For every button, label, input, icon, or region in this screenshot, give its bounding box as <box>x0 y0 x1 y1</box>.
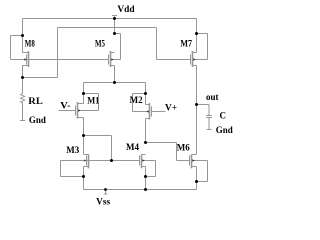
wire tail rail <box>84 82 146 84</box>
junction M8 source node <box>21 76 24 79</box>
svg-text:M6: M6 <box>177 142 190 152</box>
wire mirror feed from M1 drain <box>84 136 112 161</box>
wire out branch to capacitor <box>197 105 210 116</box>
junction M6 source bulk node <box>195 180 198 183</box>
junction M3 source node <box>82 175 85 178</box>
transistor M5 <box>109 51 115 67</box>
wire V- input lead <box>59 110 76 112</box>
junction M2 drain node <box>144 141 147 144</box>
wire M2 source drop <box>145 83 147 105</box>
wire M5 bulk loop <box>111 34 121 60</box>
svg-text:V+: V+ <box>165 102 177 112</box>
junction M1 bulk tap <box>82 92 85 95</box>
svg-text:M7: M7 <box>180 39 192 49</box>
transistor M8 <box>23 51 29 67</box>
svg-text:M8: M8 <box>25 38 35 48</box>
wire M7 drain down to out node and M6 <box>196 66 198 155</box>
wire M1 source drop <box>83 83 85 104</box>
ground left <box>20 120 25 122</box>
wire M3 gate loop <box>61 161 84 177</box>
wire M6 bulk loop <box>192 161 208 182</box>
svg-text:out: out <box>206 92 219 102</box>
wire M1 bulk loop <box>78 94 99 111</box>
wire M7 bulk loop <box>193 34 208 60</box>
transistor M2 <box>146 103 152 120</box>
transistor M1 <box>76 102 84 119</box>
svg-text:Gnd: Gnd <box>216 125 233 135</box>
transistor M4 <box>140 154 146 168</box>
wire gate line from M8 to M5 <box>11 59 109 61</box>
wire M8 drain drop from rail <box>22 19 24 53</box>
wire M7 source drop <box>196 19 198 53</box>
junction M7 bulk tap <box>195 32 198 35</box>
svg-text:Gnd: Gnd <box>29 115 46 125</box>
transistor M3 <box>84 154 89 168</box>
svg-text:Vss: Vss <box>96 197 111 207</box>
capacitor C <box>206 116 212 130</box>
wire M5 drain to tail node <box>114 66 116 83</box>
wire M2 bulk loop <box>133 94 150 112</box>
wire M8 source down to RL <box>22 66 24 94</box>
junction M1 drain node <box>82 134 85 137</box>
svg-text:RL: RL <box>28 96 43 106</box>
svg-text:M5: M5 <box>95 38 105 48</box>
junction out node <box>195 103 198 106</box>
wire bias rail left drop to M8 source node <box>23 28 58 78</box>
wire bottom gate mirror line <box>61 160 140 162</box>
transistor M6 <box>190 154 197 168</box>
svg-text:V-: V- <box>60 101 70 111</box>
wire M4 source drop <box>145 167 147 190</box>
svg-text:M2: M2 <box>130 95 143 105</box>
junction M4 source bulk node <box>144 175 147 178</box>
junction tail node <box>113 81 116 84</box>
wire M6 source drop <box>196 167 198 190</box>
svg-text:M1: M1 <box>87 96 100 106</box>
wire Vss rail <box>84 189 197 191</box>
ground right <box>207 129 212 131</box>
wire V+ input lead <box>152 111 166 113</box>
svg-text:M3: M3 <box>66 145 79 155</box>
transistor M7 <box>191 51 197 67</box>
wire RL bottom to ground <box>22 103 24 121</box>
junction M4 on Vss rail <box>144 188 147 191</box>
junction M8 gate loop tap <box>21 34 24 37</box>
wire M4 bulk loop <box>142 161 156 177</box>
wire M1 drain down to M3 <box>83 118 85 155</box>
wire Vdd rail <box>23 18 197 20</box>
junction on Vdd rail <box>113 17 116 20</box>
junction Vss tick <box>104 188 107 191</box>
wire M6 gate feed <box>146 143 190 161</box>
svg-text:C: C <box>220 110 227 120</box>
junction M2 bulk tap <box>144 92 147 95</box>
wire bias rail <box>58 27 157 29</box>
junction M5 bulk tap <box>113 32 116 35</box>
wire M8 gate loop <box>11 36 23 60</box>
node Vss terminal tick <box>104 190 107 195</box>
svg-text:Vdd: Vdd <box>117 5 135 15</box>
wire bias rail right drop to M7 gate <box>157 28 191 60</box>
resistor RL <box>20 93 24 102</box>
junction mirror line tap <box>110 159 113 162</box>
wire M3 source drop <box>83 167 85 190</box>
wire M2 drain drop <box>145 119 147 143</box>
node Vdd terminal tick <box>112 16 117 34</box>
svg-text:M4: M4 <box>126 142 139 152</box>
